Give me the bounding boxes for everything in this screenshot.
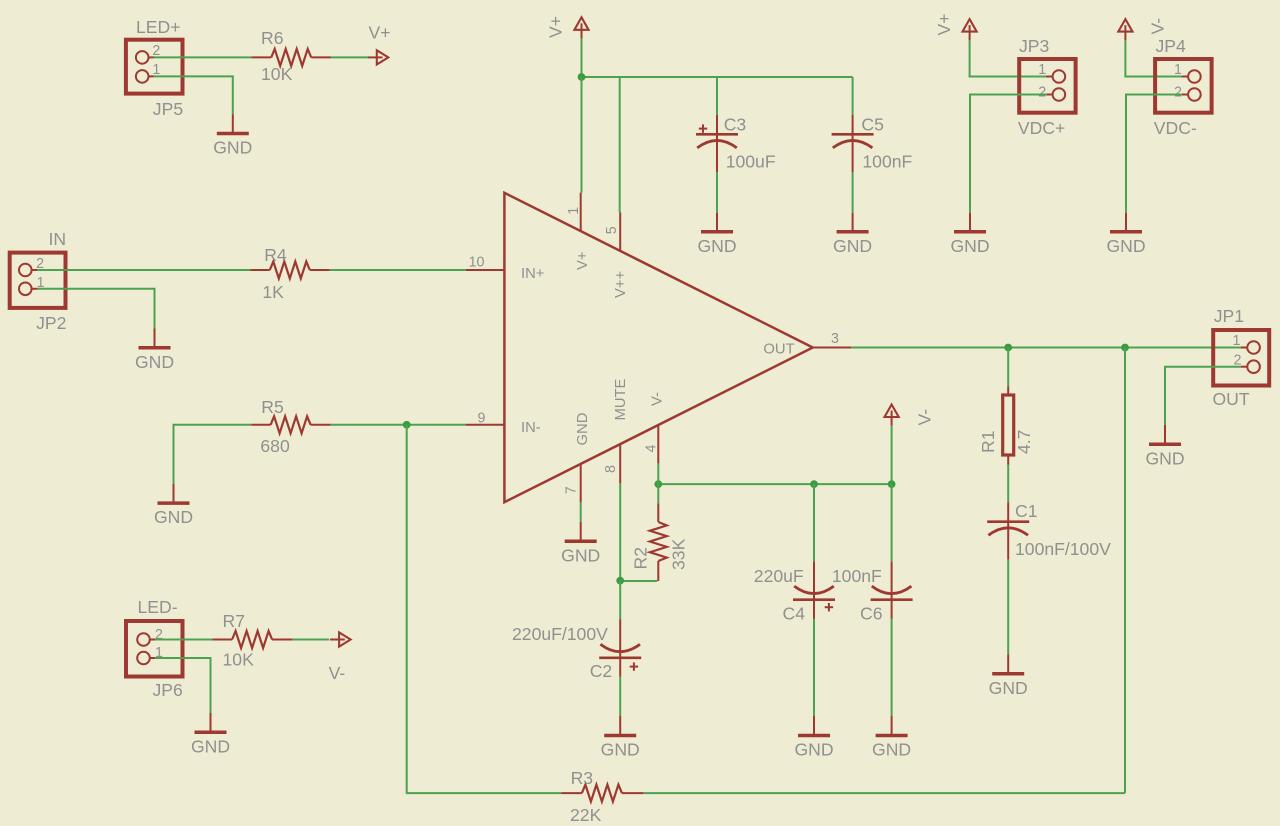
wire V- to JP4.1 xyxy=(1125,40,1188,76)
polarity + (C4) xyxy=(825,603,833,611)
svg-text:7: 7 xyxy=(564,486,580,494)
wire bottom rail right of R3 xyxy=(643,792,1125,794)
svg-text:1: 1 xyxy=(1174,62,1182,78)
svg-text:GND: GND xyxy=(135,352,174,372)
supply V- (rail) xyxy=(885,405,899,426)
ground (C5) xyxy=(833,213,872,256)
wire JP4.2 to GND xyxy=(1126,95,1182,213)
label C5 xyxy=(861,114,884,134)
wire R6 to V+ xyxy=(331,56,368,58)
svg-text:1: 1 xyxy=(1233,333,1241,349)
wire rail to R2 xyxy=(657,484,659,503)
label C3 xyxy=(724,114,747,134)
pin number U1.10 xyxy=(469,255,485,271)
wire V- arrow down xyxy=(891,426,893,484)
label V- (R7) xyxy=(329,663,346,683)
resistor R4 xyxy=(250,262,330,279)
wire V- rail xyxy=(658,483,891,485)
svg-text:10K: 10K xyxy=(261,64,293,84)
svg-text:100nF: 100nF xyxy=(862,151,912,171)
label V+ (R6) xyxy=(369,23,391,43)
label C2 xyxy=(590,661,613,681)
label R4 xyxy=(264,245,287,265)
wire C2 to GND xyxy=(619,676,621,717)
U1 pin name V- xyxy=(650,392,666,406)
pin number JP1.1 xyxy=(1233,333,1241,349)
svg-text:R4: R4 xyxy=(264,245,287,265)
svg-text:220uF: 220uF xyxy=(754,566,804,586)
junction V- rail / C6 xyxy=(888,480,896,488)
label V- (JP4) xyxy=(1148,18,1168,35)
svg-text:R7: R7 xyxy=(223,611,246,631)
op-amp U1 xyxy=(504,193,812,502)
svg-text:JP4: JP4 xyxy=(1156,36,1187,56)
label R5 value xyxy=(260,436,290,456)
svg-text:JP1: JP1 xyxy=(1214,306,1244,326)
svg-text:GND: GND xyxy=(1145,448,1184,468)
svg-text:C3: C3 xyxy=(724,114,747,134)
label JP6 name xyxy=(138,597,178,617)
label R6 value xyxy=(261,64,293,84)
svg-text:1: 1 xyxy=(566,207,582,215)
svg-text:JP6: JP6 xyxy=(153,680,184,700)
svg-text:LED+: LED+ xyxy=(136,17,181,37)
wire JP2.1 to GND xyxy=(37,289,154,329)
svg-text:R5: R5 xyxy=(261,397,284,417)
pin number JP2.2 xyxy=(36,256,44,272)
label R2 value xyxy=(669,538,689,570)
U1 pin name MUTE xyxy=(613,378,629,420)
U1 pin 5 stub xyxy=(619,212,621,251)
connector JP3 xyxy=(1019,59,1075,113)
wire JP5.2 to R6 xyxy=(154,56,252,58)
svg-text:GND: GND xyxy=(950,236,989,256)
wire U1 pin 8 down xyxy=(619,483,621,580)
label C1 xyxy=(1015,501,1038,521)
ground (C1) xyxy=(989,655,1028,698)
svg-text:IN-: IN- xyxy=(521,420,541,436)
wire JP2.2 to R4 xyxy=(37,269,250,271)
label R4 value xyxy=(262,282,284,302)
junction node IN- / R3 xyxy=(403,421,411,429)
pin number JP3.1 xyxy=(1038,62,1046,78)
svg-text:IN+: IN+ xyxy=(521,266,544,282)
svg-text:100nF: 100nF xyxy=(832,566,882,586)
svg-text:220uF/100V: 220uF/100V xyxy=(512,624,608,644)
svg-text:C4: C4 xyxy=(783,604,806,624)
resistor R5 xyxy=(251,416,330,433)
wire feedback down to bottom rail xyxy=(1124,348,1126,794)
svg-text:3: 3 xyxy=(831,331,839,347)
svg-text:V+: V+ xyxy=(369,23,391,43)
ground (C3) xyxy=(697,213,736,256)
pin number U1.4 xyxy=(644,445,660,453)
label C3 value xyxy=(726,151,776,171)
label JP2 refdes xyxy=(36,313,66,333)
label R7 value xyxy=(223,650,255,670)
svg-text:4.7: 4.7 xyxy=(1014,430,1034,454)
svg-text:V+: V+ xyxy=(575,251,591,270)
capacitor C6 xyxy=(871,561,913,619)
supply V+ (R6) xyxy=(368,50,389,64)
wire R7 to V- xyxy=(292,639,329,641)
label R5 xyxy=(261,397,284,417)
label V- (rail) xyxy=(915,409,935,426)
label R7 xyxy=(223,611,246,631)
label JP1 refdes xyxy=(1214,306,1244,326)
wire IN- node down to bottom rail xyxy=(407,425,562,793)
wire rail to U1 pin 5 xyxy=(619,77,621,212)
svg-text:JP5: JP5 xyxy=(153,99,184,119)
label JP3 name xyxy=(1018,118,1065,138)
label R6 xyxy=(261,28,284,48)
junction OUT / feedback xyxy=(1121,344,1129,352)
svg-text:GND: GND xyxy=(601,740,640,760)
label JP5 refdes xyxy=(153,99,184,119)
wire C6 to GND xyxy=(891,619,893,717)
svg-text:OUT: OUT xyxy=(763,342,794,358)
svg-text:V-: V- xyxy=(915,409,935,426)
connector JP1 xyxy=(1213,330,1269,386)
svg-text:GND: GND xyxy=(794,740,833,760)
U1 pin 1 stub xyxy=(580,193,582,232)
resistor R1 xyxy=(1003,386,1014,465)
svg-text:C6: C6 xyxy=(860,604,883,624)
svg-text:100uF: 100uF xyxy=(726,151,776,171)
label C4 value xyxy=(754,566,804,586)
svg-text:V+: V+ xyxy=(546,16,566,38)
label JP5 name xyxy=(136,17,181,37)
svg-text:JP3: JP3 xyxy=(1019,36,1050,56)
supply V+ (rail) xyxy=(574,17,588,38)
svg-text:V-: V- xyxy=(1148,18,1168,35)
pin number JP1.2 xyxy=(1234,353,1242,369)
label C4 xyxy=(783,604,806,624)
pin number JP4.1 xyxy=(1174,62,1182,78)
label JP4 refdes xyxy=(1156,36,1187,56)
svg-text:10: 10 xyxy=(469,255,485,271)
capacitor C4 xyxy=(793,561,835,619)
label JP3 refdes xyxy=(1019,36,1050,56)
svg-text:1K: 1K xyxy=(262,282,284,302)
wire MUTE node to C2 xyxy=(619,581,621,620)
label C2 value xyxy=(512,624,608,644)
ground (C6) xyxy=(872,716,911,759)
svg-text:R3: R3 xyxy=(571,768,594,788)
supply V- (JP4) xyxy=(1118,19,1132,40)
wire JP6.1 to GND xyxy=(155,658,211,713)
svg-text:V-: V- xyxy=(650,392,666,406)
U1 pin 3 stub (OUT) xyxy=(813,347,852,349)
svg-text:VDC+: VDC+ xyxy=(1018,118,1065,138)
junction V- rail / C4 xyxy=(810,480,818,488)
ground (JP5) xyxy=(213,114,252,157)
wire V+ to JP3.1 xyxy=(970,40,1052,76)
junction OUT / R1 xyxy=(1004,344,1012,352)
wire U1 pin 4 to rail xyxy=(657,463,659,484)
junction V+ rail / U1 pin 1 xyxy=(578,73,586,81)
label C6 value xyxy=(832,566,882,586)
label C6 xyxy=(860,604,883,624)
capacitor C1 xyxy=(987,502,1029,559)
svg-text:GND: GND xyxy=(191,736,230,756)
wire R2 to MUTE node xyxy=(620,580,657,582)
polarity + (C3) xyxy=(699,124,707,132)
pin number U1.9 xyxy=(478,411,486,427)
junction V- rail / U1 pin 4 xyxy=(654,480,662,488)
wire V+ arrow down to rail xyxy=(581,39,583,77)
svg-text:1: 1 xyxy=(1038,62,1046,78)
wire OUT to R1 xyxy=(1007,348,1009,387)
ground (U1 pin 7) xyxy=(561,522,600,565)
label R1 xyxy=(978,431,998,454)
label C5 value xyxy=(862,151,912,171)
U1 pin name IN+ xyxy=(521,266,544,282)
svg-text:V-: V- xyxy=(329,663,346,683)
U1 pin name GND xyxy=(575,413,591,446)
wire R4 to U1 pin 10 xyxy=(330,269,466,271)
ground (C4) xyxy=(794,716,833,759)
U1 pin 8 stub xyxy=(619,444,621,483)
ground (JP1) xyxy=(1145,425,1184,468)
label R1 value xyxy=(1014,430,1034,454)
svg-text:4: 4 xyxy=(644,445,660,453)
wire U1 pin 7 to GND xyxy=(580,502,582,522)
svg-text:GND: GND xyxy=(989,678,1028,698)
svg-text:GND: GND xyxy=(872,740,911,760)
svg-text:GND: GND xyxy=(213,138,252,158)
pin number U1.7 xyxy=(564,486,580,494)
svg-text:680: 680 xyxy=(260,436,290,456)
svg-text:GND: GND xyxy=(833,236,872,256)
wire C1 to GND xyxy=(1007,560,1009,655)
pin number JP5.1 xyxy=(152,62,160,78)
resistor R2 xyxy=(650,503,667,581)
U1 pin name IN- xyxy=(521,420,541,436)
svg-text:5: 5 xyxy=(604,226,620,234)
wire V+ rail xyxy=(582,76,853,78)
svg-text:R2: R2 xyxy=(631,547,651,570)
junction MUTE / R2 / C2 xyxy=(616,577,624,585)
svg-text:VDC-: VDC- xyxy=(1154,118,1197,138)
svg-text:V++: V++ xyxy=(613,271,629,298)
pin number JP6.2 xyxy=(155,627,163,643)
wire JP1.2 to GND xyxy=(1165,367,1241,425)
svg-text:9: 9 xyxy=(478,411,486,427)
label JP2 name xyxy=(49,229,67,249)
label R3 xyxy=(571,768,594,788)
connector JP6 xyxy=(126,621,183,677)
U1 pin name V+ xyxy=(575,251,591,270)
label V+ (JP3) xyxy=(934,13,954,35)
resistor R7 xyxy=(212,631,292,648)
svg-text:GND: GND xyxy=(1106,236,1145,256)
capacitor C3 xyxy=(696,115,738,172)
capacitor C5 xyxy=(832,115,874,172)
wire JP5.1 to GND xyxy=(154,76,233,114)
pin number JP6.1 xyxy=(155,645,163,661)
wire R1 to C1 xyxy=(1007,465,1009,502)
wire U1 OUT to JP1.1 xyxy=(851,347,1247,349)
ground (JP4) xyxy=(1106,213,1145,256)
svg-text:C5: C5 xyxy=(861,114,884,134)
wire JP3.2 to GND xyxy=(970,95,1046,213)
svg-text:100nF/100V: 100nF/100V xyxy=(1015,539,1111,559)
ground (JP6) xyxy=(191,713,230,756)
label V+ (rail) xyxy=(546,16,566,38)
svg-text:C1: C1 xyxy=(1015,501,1038,521)
svg-text:2: 2 xyxy=(1174,84,1182,100)
wire GND to R5 xyxy=(174,425,252,484)
svg-text:GND: GND xyxy=(697,236,736,256)
polarity + (C2) xyxy=(630,662,638,670)
svg-text:22K: 22K xyxy=(570,805,602,825)
svg-text:R1: R1 xyxy=(978,431,998,454)
U1 pin 9 stub xyxy=(466,424,505,426)
label JP4 name xyxy=(1154,118,1197,138)
wire JP6.2 to R7 xyxy=(155,639,212,641)
wire C4 to GND xyxy=(813,619,815,717)
wire C3 to GND xyxy=(716,172,718,212)
supply V- (R7) xyxy=(330,632,351,646)
label R2 xyxy=(631,547,651,570)
label C1 value xyxy=(1015,539,1111,559)
capacitor C2 xyxy=(599,619,641,677)
supply V+ (JP3) xyxy=(963,19,977,40)
svg-text:C2: C2 xyxy=(590,661,613,681)
ground (C2) xyxy=(601,716,640,759)
svg-text:33K: 33K xyxy=(669,538,689,570)
pin number JP4.2 xyxy=(1174,84,1182,100)
svg-text:2: 2 xyxy=(1038,84,1046,100)
svg-text:V+: V+ xyxy=(934,13,954,35)
pin number U1.1 xyxy=(566,207,582,215)
pin number U1.5 xyxy=(604,226,620,234)
connector JP2 xyxy=(10,253,66,308)
svg-text:10K: 10K xyxy=(223,650,255,670)
wire rail to C3 xyxy=(716,77,718,115)
ground (JP2) xyxy=(135,329,174,372)
pin number JP3.2 xyxy=(1038,84,1046,100)
pin number U1.3 xyxy=(831,331,839,347)
connector JP5 xyxy=(126,40,183,94)
U1 pin 4 stub xyxy=(657,425,659,464)
label R3 value xyxy=(570,805,602,825)
wire C5 to GND xyxy=(852,172,854,212)
wire rail to C4 xyxy=(813,484,815,561)
svg-text:2: 2 xyxy=(155,627,163,643)
svg-text:GND: GND xyxy=(561,545,600,565)
svg-text:8: 8 xyxy=(603,465,619,473)
resistor R3 xyxy=(561,785,643,802)
label JP1 name xyxy=(1213,389,1250,409)
U1 pin name OUT xyxy=(763,342,794,358)
pin number JP5.2 xyxy=(152,43,160,59)
wire R5 to U1 pin 9 xyxy=(331,424,466,426)
svg-text:LED-: LED- xyxy=(138,597,178,617)
svg-text:JP2: JP2 xyxy=(36,313,66,333)
U1 pin 10 stub xyxy=(466,269,505,271)
wire rail to U1 pin 1 xyxy=(581,77,583,193)
svg-text:IN: IN xyxy=(49,229,67,249)
svg-text:GND: GND xyxy=(154,507,193,527)
ground (R5) xyxy=(154,484,193,527)
svg-text:MUTE: MUTE xyxy=(613,378,629,420)
pin number U1.8 xyxy=(603,465,619,473)
label JP6 refdes xyxy=(153,680,184,700)
wire rail to C6 xyxy=(891,484,893,561)
ground (JP3) xyxy=(950,213,989,256)
resistor R6 xyxy=(251,49,331,66)
U1 pin 7 stub xyxy=(580,464,582,503)
wire rail to C5 xyxy=(852,77,854,115)
U1 pin name V++ xyxy=(613,271,629,298)
pin number JP2.1 xyxy=(37,275,45,291)
connector JP4 xyxy=(1155,59,1212,113)
svg-text:OUT: OUT xyxy=(1213,389,1250,409)
svg-text:R6: R6 xyxy=(261,28,284,48)
svg-text:GND: GND xyxy=(575,413,591,446)
